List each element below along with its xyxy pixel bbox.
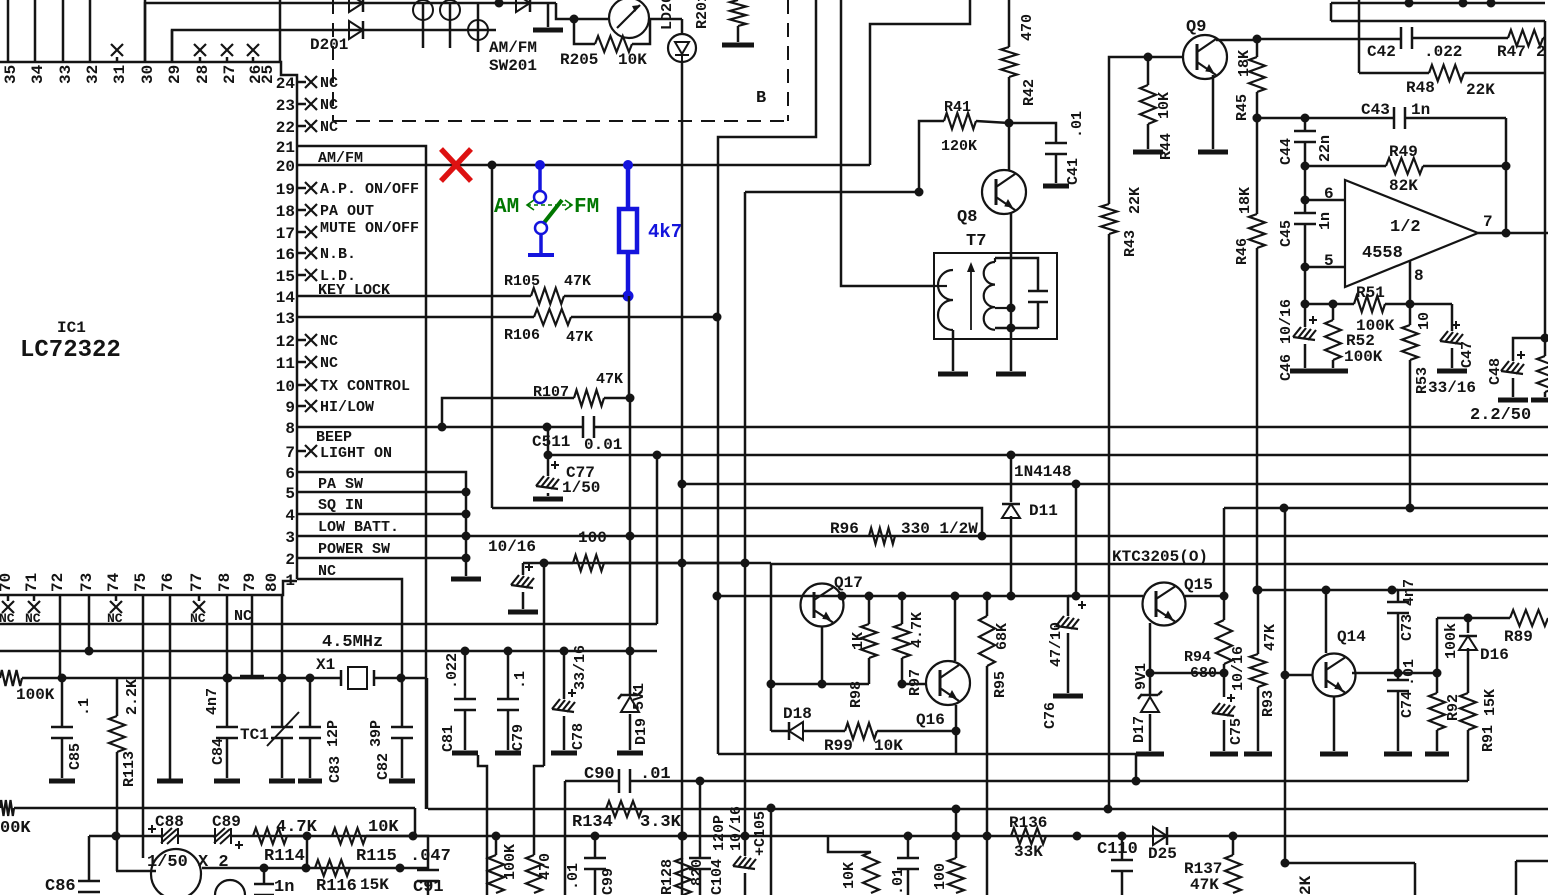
wire pin8 down — [1409, 260, 1412, 304]
svg-text:.022: .022 — [1424, 43, 1462, 61]
svg-text:C82: C82 — [375, 753, 392, 780]
svg-text:POWER SW: POWER SW — [318, 541, 390, 558]
blue switch contact top — [534, 191, 546, 203]
svg-text:R94: R94 — [1184, 649, 1211, 666]
svg-text:R43: R43 — [1122, 230, 1139, 257]
svg-text:10/16: 10/16 — [488, 538, 536, 556]
svg-text:R93: R93 — [1260, 690, 1277, 717]
bus y564 east — [771, 563, 1548, 566]
svg-text:75: 75 — [132, 573, 150, 592]
svg-text:19: 19 — [276, 181, 295, 199]
wire x745 down — [744, 192, 747, 563]
svg-text:.01: .01 — [890, 868, 907, 895]
svg-text:22K: 22K — [1466, 81, 1495, 99]
wire Q8 emitter — [1010, 212, 1013, 308]
wire corner to C88 line — [414, 808, 417, 836]
svg-text:R128: R128 — [659, 859, 676, 895]
capacitor C84 4n7 — [226, 595, 229, 727]
resistor R107 47K — [442, 398, 574, 427]
svg-text:R41: R41 — [944, 99, 971, 116]
wire op-amp output pin7 — [1478, 232, 1548, 235]
svg-text:R47: R47 — [1497, 43, 1526, 61]
capacitor C45 1n — [1304, 200, 1307, 213]
wire pin79 down — [251, 595, 254, 676]
svg-text:TC1: TC1 — [240, 726, 269, 744]
svg-text:10K: 10K — [841, 862, 858, 889]
svg-text:LIGHT ON: LIGHT ON — [320, 445, 392, 462]
diode D18 — [771, 730, 789, 733]
capacitor C90 .01 — [564, 781, 567, 895]
svg-text:C81: C81 — [440, 725, 457, 752]
wire pin73 down to bus — [88, 595, 91, 651]
capacitor C75 10/16 — [1223, 673, 1226, 697]
blue terminal bar — [528, 253, 554, 257]
transistor VR top — [609, 0, 649, 38]
resistor R42 470 — [1008, 0, 1011, 47]
svg-text:C43: C43 — [1361, 101, 1390, 119]
junction dots bus836 — [492, 832, 501, 841]
wire Q15 emitter — [1149, 623, 1152, 673]
stub up 2 — [1459, 0, 1468, 8]
svg-text:R114: R114 — [264, 847, 305, 866]
wire x1359 down — [1358, 0, 1361, 73]
svg-text:.01: .01 — [565, 863, 582, 890]
svg-text:.022: .022 — [444, 653, 461, 689]
svg-text:X1: X1 — [316, 656, 335, 674]
wire x544 down — [543, 563, 546, 766]
wire Q14 down to ground — [1333, 697, 1336, 751]
transistor bottom 2 — [215, 880, 245, 895]
svg-text:0.01: 0.01 — [584, 436, 622, 454]
svg-text:4.5MHz: 4.5MHz — [322, 633, 383, 652]
svg-text:47K: 47K — [596, 371, 623, 388]
svg-text:29: 29 — [166, 65, 184, 84]
svg-text:C99: C99 — [600, 868, 617, 895]
svg-text:100K: 100K — [1344, 348, 1383, 366]
svg-text:10K: 10K — [368, 818, 399, 837]
zener D19 5V1 — [626, 647, 635, 656]
svg-text:2K: 2K — [1297, 875, 1315, 895]
bus pin8 y427 with C511 — [297, 426, 583, 429]
resistor R94 680 — [1223, 596, 1226, 620]
resistor 100K tap — [495, 836, 498, 855]
svg-text:NC: NC — [234, 608, 252, 625]
wire corner x870 — [870, 0, 970, 165]
svg-text:470: 470 — [1019, 14, 1036, 41]
svg-text:14: 14 — [276, 289, 296, 307]
resistor 100K bottom left — [0, 800, 14, 816]
bus top right y3 — [1331, 2, 1545, 5]
resistor R49 82K — [1301, 162, 1310, 171]
svg-text:C46: C46 — [1278, 354, 1295, 381]
svg-text:1: 1 — [285, 572, 295, 590]
resistor R95 68K — [983, 592, 992, 601]
svg-text:HI/LOW: HI/LOW — [320, 399, 374, 416]
capacitor C85 .1 — [61, 678, 64, 727]
svg-text:N.B.: N.B. — [320, 246, 356, 263]
resistor R97 4.7K — [898, 592, 907, 601]
svg-text:33/16: 33/16 — [1428, 379, 1476, 397]
svg-text:.01: .01 — [1069, 111, 1086, 138]
resistor R128 820 — [682, 857, 685, 860]
svg-text:PA SW: PA SW — [318, 476, 363, 493]
svg-text:R201: R201 — [694, 0, 711, 29]
ground sw — [547, 3, 550, 27]
capacitor C78 33/16 — [560, 647, 569, 656]
wire op-amp pin5 — [1301, 263, 1310, 272]
svg-text:10/16: 10/16 — [1230, 646, 1247, 691]
wire corner x816 — [718, 0, 816, 754]
junction pin4 — [462, 510, 471, 519]
svg-text:C90: C90 — [584, 765, 615, 784]
svg-text:C91: C91 — [413, 878, 444, 895]
svg-text:77: 77 — [188, 573, 206, 592]
svg-text:KTC3205(O): KTC3205(O) — [1112, 548, 1208, 566]
svg-text:25: 25 — [259, 65, 277, 84]
svg-text:R134: R134 — [572, 813, 613, 832]
diode D201 top — [349, 0, 363, 12]
svg-text:R89: R89 — [1504, 628, 1533, 646]
wire x771 stub — [767, 804, 776, 813]
blue wire switch bottom — [539, 234, 543, 253]
line y673 — [1150, 672, 1224, 675]
svg-text:31: 31 — [111, 65, 129, 84]
resistor R134 3.3K — [606, 801, 642, 817]
svg-text:10K: 10K — [618, 51, 647, 69]
svg-text:C74: C74 — [1399, 691, 1416, 718]
svg-text:+C105: +C105 — [752, 811, 769, 856]
svg-text:C83: C83 — [327, 756, 344, 783]
capacitor 1n — [263, 868, 266, 884]
svg-text:NC: NC — [320, 75, 338, 92]
wire Q9 collector — [1216, 39, 1257, 42]
capacitor C88 — [148, 828, 156, 830]
resistor R106 47K — [297, 316, 534, 319]
resistor R41 120K — [919, 121, 944, 192]
pin 26 of IC1 — [252, 57, 255, 62]
svg-text:R48: R48 — [1406, 79, 1435, 97]
bus y563 — [544, 562, 771, 565]
svg-text:100K: 100K — [16, 686, 55, 704]
wire right column down — [1544, 21, 1547, 338]
junction R45/R46 — [1253, 114, 1262, 123]
svg-text:Q16: Q16 — [916, 711, 945, 729]
resistor R45 18K — [1256, 39, 1259, 57]
svg-text:D25: D25 — [1148, 845, 1177, 863]
wire x1224 up — [1223, 508, 1226, 596]
svg-text:D18: D18 — [783, 705, 812, 723]
wire LD20 down — [681, 62, 684, 484]
junction R113 bus — [112, 832, 121, 841]
wire pin75 down — [142, 595, 145, 858]
resistor 100 bottom — [952, 805, 961, 814]
svg-text:A.P. ON/OFF: A.P. ON/OFF — [320, 181, 419, 198]
resistor R53 10 — [1409, 304, 1412, 325]
svg-text:R106: R106 — [504, 327, 540, 344]
resistor R89 — [1468, 617, 1510, 620]
wire x682 mid — [681, 484, 684, 563]
wire Q17 emitter — [821, 627, 824, 684]
svg-text:35: 35 — [2, 65, 20, 84]
bus y836 — [89, 835, 162, 838]
blue wire switch top — [535, 160, 545, 170]
bus y624 — [0, 623, 657, 626]
diode D16 — [1464, 614, 1473, 623]
resistor R137 47K — [1229, 832, 1238, 841]
svg-text:C110: C110 — [1097, 840, 1138, 859]
svg-text:C85: C85 — [67, 743, 84, 770]
svg-text:10: 10 — [276, 378, 295, 396]
capacitor C83 12P — [306, 674, 315, 683]
svg-text:2: 2 — [285, 551, 295, 569]
svg-text:D11: D11 — [1029, 502, 1058, 520]
svg-text:SW201: SW201 — [489, 57, 537, 75]
svg-text:4.7K: 4.7K — [909, 612, 926, 648]
svg-text:72: 72 — [49, 573, 67, 592]
wire node at x492 down — [491, 165, 494, 508]
svg-text:30: 30 — [139, 65, 157, 84]
svg-text:4558: 4558 — [1362, 244, 1403, 263]
switch SW201 contact 3 — [468, 20, 488, 40]
svg-text:NC: NC — [318, 563, 336, 580]
wire Q14 base — [1281, 671, 1290, 680]
svg-text:27: 27 — [221, 65, 239, 84]
svg-text:.01: .01 — [1401, 659, 1418, 686]
junction Q17 collector — [838, 592, 847, 601]
svg-text:4n7: 4n7 — [204, 688, 221, 715]
wire pin72 down to node — [59, 595, 62, 678]
svg-text:AM/FM: AM/FM — [489, 39, 537, 57]
svg-text:R96: R96 — [830, 520, 859, 538]
capacitor C105 10/16 — [744, 836, 747, 856]
svg-text:T7: T7 — [966, 232, 986, 251]
svg-text:C89: C89 — [212, 813, 241, 831]
svg-text:4: 4 — [285, 507, 295, 525]
svg-text:5: 5 — [285, 485, 295, 503]
svg-text:R49: R49 — [1389, 143, 1418, 161]
blue resistor 4k7 — [623, 160, 633, 170]
svg-text:.047: .047 — [410, 847, 451, 866]
svg-text:C73: C73 — [1399, 614, 1416, 641]
bus pin3 y536 — [297, 535, 1548, 538]
X1 line y678 — [58, 674, 67, 683]
svg-text:C75: C75 — [1228, 718, 1245, 745]
resistor R44 10K — [1144, 53, 1153, 62]
bus y596 — [717, 595, 1143, 598]
svg-text:100: 100 — [578, 529, 607, 547]
svg-text:R42: R42 — [1021, 79, 1038, 106]
capacitor C86 — [78, 880, 100, 883]
switch SW201 contact 2 — [440, 0, 460, 20]
pin 30 of IC1 — [144, 0, 147, 62]
svg-text:C78: C78 — [570, 723, 587, 750]
svg-text:C86: C86 — [45, 877, 76, 895]
svg-text:R105: R105 — [504, 273, 540, 290]
svg-text:R136: R136 — [1009, 814, 1047, 832]
svg-text:C88: C88 — [155, 813, 184, 831]
svg-text:9V1: 9V1 — [1133, 663, 1150, 690]
resistor R116 15K — [315, 860, 350, 876]
junction dot top line — [495, 0, 504, 8]
pin 32 of IC1 — [89, 0, 92, 62]
svg-text:B: B — [756, 89, 766, 108]
svg-text:21: 21 — [276, 139, 295, 157]
pin 28 of IC1 — [199, 57, 202, 62]
bus y651 — [0, 650, 657, 653]
svg-text:11: 11 — [276, 355, 295, 373]
junction R136 right — [1073, 832, 1082, 841]
wire x1076 — [1072, 480, 1081, 489]
wire Q8 collector emitter join — [1010, 308, 1013, 328]
junction dot — [570, 15, 579, 24]
resistor R51 100K — [1301, 300, 1310, 309]
svg-text:13: 13 — [276, 310, 295, 328]
svg-text:IC1: IC1 — [57, 319, 86, 337]
svg-text:4k7: 4k7 — [648, 221, 682, 243]
svg-text:.1: .1 — [76, 698, 93, 716]
svg-text:68K: 68K — [994, 623, 1011, 650]
svg-text:10/16: 10/16 — [1278, 299, 1295, 344]
svg-text:22K: 22K — [1127, 187, 1144, 214]
junction right col — [1541, 334, 1548, 343]
svg-text:120P: 120P — [711, 815, 728, 851]
svg-text:71: 71 — [23, 573, 41, 592]
wire Q15 collector east — [1185, 595, 1224, 598]
resistor 100 — [544, 562, 573, 565]
svg-text:10/16: 10/16 — [728, 806, 745, 851]
wire bus836 left end — [88, 836, 91, 881]
svg-text:28: 28 — [194, 65, 212, 84]
wire R43 end — [1104, 805, 1113, 814]
wire Q14 emitter line — [1352, 672, 1437, 675]
svg-text:10: 10 — [1416, 312, 1433, 330]
resistor right edge — [1537, 356, 1548, 392]
resistor R91 15K — [1460, 693, 1476, 730]
svg-text:FM: FM — [574, 196, 599, 219]
wire Q9 emitter to ground — [1212, 75, 1215, 149]
resistor R128 820 — [679, 832, 688, 841]
resistor R93 47K — [1254, 586, 1263, 595]
svg-text:23: 23 — [276, 97, 295, 115]
svg-text:73: 73 — [78, 573, 96, 592]
resistor R105 47K — [297, 295, 531, 298]
resistor R48 22K — [1359, 72, 1429, 75]
pin 25 of IC1 — [279, 0, 282, 62]
svg-text:10K: 10K — [1156, 92, 1173, 119]
capacitor C43 1n — [1253, 114, 1262, 123]
svg-text:00K: 00K — [0, 819, 31, 838]
capacitor C42 .022 — [1257, 38, 1401, 41]
svg-text:1n: 1n — [274, 878, 294, 895]
svg-text:C41: C41 — [1065, 158, 1082, 185]
capacitor C511 0.01 — [582, 416, 585, 438]
svg-text:R116: R116 — [316, 877, 357, 895]
svg-text:70: 70 — [0, 573, 15, 592]
svg-text:3: 3 — [285, 529, 295, 547]
green switch lever — [543, 200, 562, 224]
svg-text:1n: 1n — [1411, 101, 1430, 119]
svg-text:10K: 10K — [874, 737, 903, 755]
pin 33 of IC1 — [62, 0, 65, 62]
LED LD20 — [681, 19, 684, 35]
capacitor C41 .01 — [1009, 123, 1056, 143]
svg-text:33/16: 33/16 — [572, 645, 589, 690]
resistor R46 18K — [1256, 118, 1259, 214]
svg-text:C42: C42 — [1367, 43, 1396, 61]
resistor 470 — [526, 855, 542, 893]
svg-text:32: 32 — [84, 65, 102, 84]
svg-text:15: 15 — [276, 268, 295, 286]
wire pin1 — [297, 579, 402, 678]
svg-text:18K: 18K — [1237, 187, 1254, 214]
svg-text:C44: C44 — [1278, 138, 1295, 165]
terminal bar pin79 — [240, 675, 264, 680]
svg-text:15K: 15K — [360, 876, 389, 894]
wire x1136 box corner — [955, 753, 958, 756]
svg-text:16: 16 — [276, 246, 295, 264]
svg-text:76: 76 — [159, 573, 177, 592]
svg-text:4n7: 4n7 — [1401, 579, 1418, 606]
wire pin20 AM/FM east — [297, 164, 870, 167]
ground pins column — [451, 577, 481, 582]
svg-text:100k: 100k — [1443, 623, 1460, 659]
ground pin76 — [157, 779, 183, 784]
resistor R92 100k — [1436, 673, 1439, 693]
wire pin80 down to TC1 — [281, 595, 284, 678]
wire to LED — [650, 18, 682, 21]
diode on y30 wire — [349, 21, 363, 39]
svg-text:.01: .01 — [640, 765, 671, 784]
wire x1326 down to Q14 — [1322, 586, 1331, 595]
red X annotation — [441, 149, 471, 181]
svg-text:MUTE ON/OFF: MUTE ON/OFF — [320, 220, 419, 237]
capacitor C81 .022 — [461, 647, 470, 656]
svg-text:D201: D201 — [310, 36, 348, 54]
svg-text:470: 470 — [537, 853, 554, 880]
svg-text:47K: 47K — [566, 329, 593, 346]
wire y192 to Q8 base — [745, 191, 919, 194]
resistor R52 100K — [1332, 304, 1335, 320]
svg-text:R99: R99 — [824, 737, 853, 755]
wire Q16 emitter — [955, 705, 958, 754]
svg-text:120K: 120K — [941, 138, 977, 155]
svg-text:1/50: 1/50 — [562, 479, 600, 497]
line y781 bottom — [565, 780, 619, 783]
line y868 — [202, 867, 428, 870]
svg-text:4.7K: 4.7K — [276, 818, 318, 837]
pin 35 of IC1 — [7, 0, 10, 62]
svg-text:R95: R95 — [992, 671, 1009, 698]
resistor R113 2.2K — [116, 678, 119, 716]
svg-text:BEEP: BEEP — [316, 429, 352, 446]
junction node on AM/FM wire — [488, 161, 497, 170]
wire pin21 box down — [297, 146, 426, 809]
svg-text:C47: C47 — [1459, 341, 1476, 368]
svg-text:LOW BATT.: LOW BATT. — [318, 519, 399, 536]
svg-text:80: 80 — [263, 573, 281, 592]
junction R42/C41 — [1005, 119, 1014, 128]
svg-text:78: 78 — [216, 573, 234, 592]
svg-text:.1: .1 — [512, 671, 529, 689]
wire pin29 east at y30 — [172, 30, 496, 62]
wire D16 corner — [1436, 618, 1439, 673]
capacitor C104 120P — [696, 777, 705, 786]
svg-text:Q15: Q15 — [1184, 576, 1213, 594]
transistor Q15 — [1143, 583, 1186, 626]
capacitor C47 33/16 — [1451, 304, 1454, 331]
stub up 3 — [1487, 0, 1496, 8]
svg-text:AM: AM — [494, 196, 519, 219]
